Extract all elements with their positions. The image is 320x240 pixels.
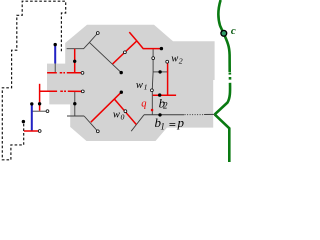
svg-text:p: p — [177, 115, 185, 130]
svg-text:q: q — [141, 99, 146, 110]
node D1 — [54, 43, 57, 46]
svg-text:2: 2 — [179, 56, 183, 65]
red edge top diagonal — [129, 32, 137, 41]
edge B1 horizontal — [67, 42, 90, 48]
node D7 — [120, 71, 123, 74]
node O7 white — [152, 57, 155, 60]
node D6 — [73, 102, 76, 105]
node w1 white — [151, 89, 154, 92]
edge to node D7 — [89, 42, 121, 72]
gray region P — [47, 25, 215, 141]
blue edge upper — [54, 45, 56, 64]
svg-text:w: w — [171, 53, 178, 64]
red edge through O6 — [113, 41, 137, 64]
red edge w2 vertical — [167, 63, 169, 95]
svg-text:2: 2 — [163, 101, 168, 111]
node D3 — [30, 102, 33, 105]
node D4 — [38, 102, 41, 105]
red edge through w0 — [115, 99, 137, 124]
node D14 — [120, 91, 123, 94]
node O2 white — [81, 72, 84, 75]
svg-text:c: c — [231, 25, 236, 37]
red edge D14 diagonal — [91, 92, 122, 122]
edge D6 vertical — [74, 91, 76, 116]
edge b1 baseline dotted — [185, 114, 205, 116]
node w0 white — [124, 110, 127, 113]
edge diagonal to node Oq — [84, 116, 97, 131]
dashed boundary staircase — [2, 1, 65, 160]
node O5 white — [38, 130, 41, 133]
svg-text:w: w — [113, 110, 120, 121]
svg-text:1: 1 — [160, 121, 165, 131]
edge w1 to b1 vertical — [151, 91, 153, 115]
wire black edge below blue left-top — [54, 64, 56, 73]
green path lower with bend to apex — [215, 83, 230, 115]
node D2 — [73, 60, 76, 63]
green path main curve — [218, 0, 229, 72]
red edge H1 with dash-dot — [47, 72, 81, 74]
node O1 white — [96, 32, 99, 35]
edge diagonal left of b1 — [131, 115, 144, 131]
svg-text:w: w — [136, 80, 143, 91]
node c — [221, 30, 227, 36]
edge right chain vertical — [151, 49, 154, 89]
node Oq white — [96, 130, 99, 133]
blue edge lower — [31, 105, 33, 131]
red edge H4 bottom-left — [24, 130, 39, 132]
green path dash segments — [229, 73, 232, 80]
node b1 — [158, 113, 161, 116]
node D8 — [160, 47, 163, 50]
edge bottom-middle horizontal — [67, 115, 84, 117]
red edge to D8 — [137, 41, 162, 49]
node O4 white — [46, 110, 49, 113]
edge D9 horizontal — [153, 71, 168, 73]
node O6 white — [124, 51, 127, 54]
node q red square — [151, 109, 153, 111]
red edge V2 — [39, 84, 41, 111]
edge b1 baseline solid — [144, 114, 184, 116]
node w2 white — [166, 60, 169, 63]
red edge H2 with dash-dot — [40, 90, 82, 92]
svg-text:1: 1 — [144, 83, 148, 92]
red edge V1 — [74, 49, 76, 73]
node b2 — [158, 93, 161, 96]
edge O4 horizontal — [32, 110, 47, 112]
node O3 white — [81, 90, 84, 93]
node D9 — [158, 70, 161, 73]
green path leg down-right — [215, 114, 230, 162]
svg-text:0: 0 — [121, 112, 125, 121]
edge b1 baseline right solid — [204, 113, 215, 115]
red edge H3 — [153, 94, 176, 96]
node D5 — [22, 120, 25, 123]
edge to node O1 — [89, 33, 97, 42]
